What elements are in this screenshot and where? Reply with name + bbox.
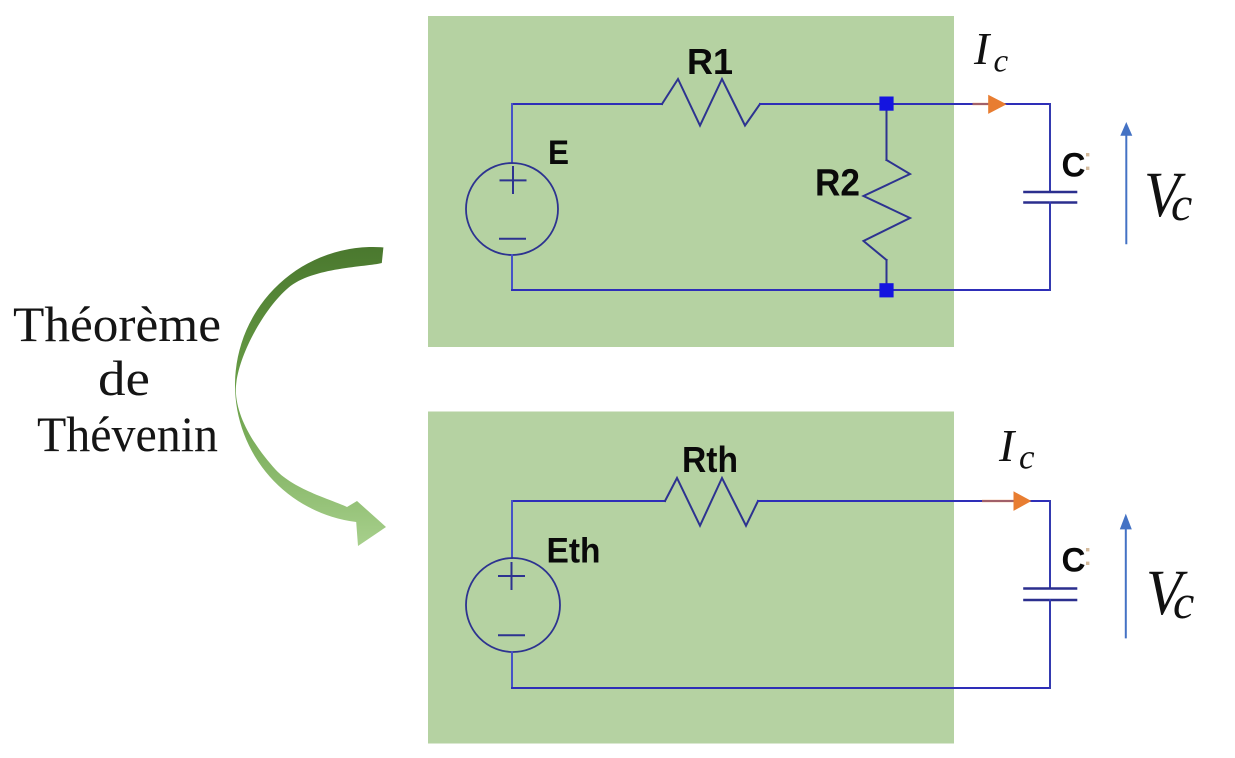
capacitor C plates xyxy=(1025,589,1077,601)
wire R1 to top-right corner xyxy=(760,103,1050,105)
wire left vertical lower xyxy=(511,652,513,688)
minus sign xyxy=(500,238,525,240)
wire bottom horizontal xyxy=(512,687,1050,689)
voltage source E circle xyxy=(466,163,558,255)
node square bottom xyxy=(879,283,893,297)
plus sign xyxy=(501,167,526,193)
green panel bottom xyxy=(428,412,954,744)
svg-text:Théorème: Théorème xyxy=(13,296,221,352)
svg-text:c: c xyxy=(994,44,1009,80)
artifact near C xyxy=(1086,548,1089,551)
voltage arrow Vc (blue) xyxy=(1125,134,1127,244)
capacitor C plates xyxy=(1025,192,1077,203)
svg-text:E: E xyxy=(548,134,569,172)
minus sign xyxy=(499,634,524,636)
plus sign xyxy=(499,563,524,589)
wire top-left horizontal (Eth to Rth) xyxy=(512,500,665,502)
wire right vertical lower xyxy=(1049,600,1051,688)
svg-text:Thévenin: Thévenin xyxy=(37,406,218,462)
svg-text:C: C xyxy=(1062,542,1086,580)
current arrow Ic (orange) xyxy=(973,103,990,105)
wire Rth to top-right corner xyxy=(758,500,1050,502)
svg-text:c: c xyxy=(1019,438,1035,477)
wire left vertical upper (to source +) xyxy=(511,104,513,163)
svg-text:R2: R2 xyxy=(815,163,860,205)
voltage arrow Vc (blue) xyxy=(1125,528,1127,638)
title text "Théorème de Thévenin" xyxy=(13,296,221,462)
svg-text:R1: R1 xyxy=(687,41,733,82)
node square top xyxy=(879,97,893,111)
wire right vertical upper (to capacitor) xyxy=(1049,104,1051,192)
svg-text:c: c xyxy=(1171,178,1192,231)
resistor R2 wire to bottom node xyxy=(886,260,888,284)
resistor R2 xyxy=(864,160,911,260)
svg-text:C: C xyxy=(1062,147,1086,185)
svg-text:de: de xyxy=(98,350,150,406)
wire left vertical lower (source - to bottom) xyxy=(511,255,513,290)
current arrow Ic (orange) xyxy=(982,500,1014,502)
resistor R2 vertical wire from top node xyxy=(886,110,888,160)
svg-text:Eth: Eth xyxy=(547,531,601,570)
svg-text:I: I xyxy=(998,420,1017,471)
wire bottom horizontal xyxy=(512,289,1050,291)
svg-text:Rth: Rth xyxy=(682,439,738,480)
voltage source Eth circle xyxy=(466,558,560,652)
green curved transform arrow xyxy=(235,247,386,546)
wire left vertical upper (to source +) xyxy=(511,501,513,558)
resistor R1 xyxy=(662,79,760,126)
wire top-left horizontal (E to R1) xyxy=(512,103,662,105)
svg-text:I: I xyxy=(973,23,992,74)
svg-text:c: c xyxy=(1173,576,1194,629)
resistor Rth xyxy=(665,478,758,526)
wire right vertical upper (to capacitor) xyxy=(1049,501,1051,589)
artifact near C xyxy=(1086,153,1089,156)
green panel top xyxy=(428,16,954,347)
wire right vertical lower xyxy=(1049,203,1051,291)
